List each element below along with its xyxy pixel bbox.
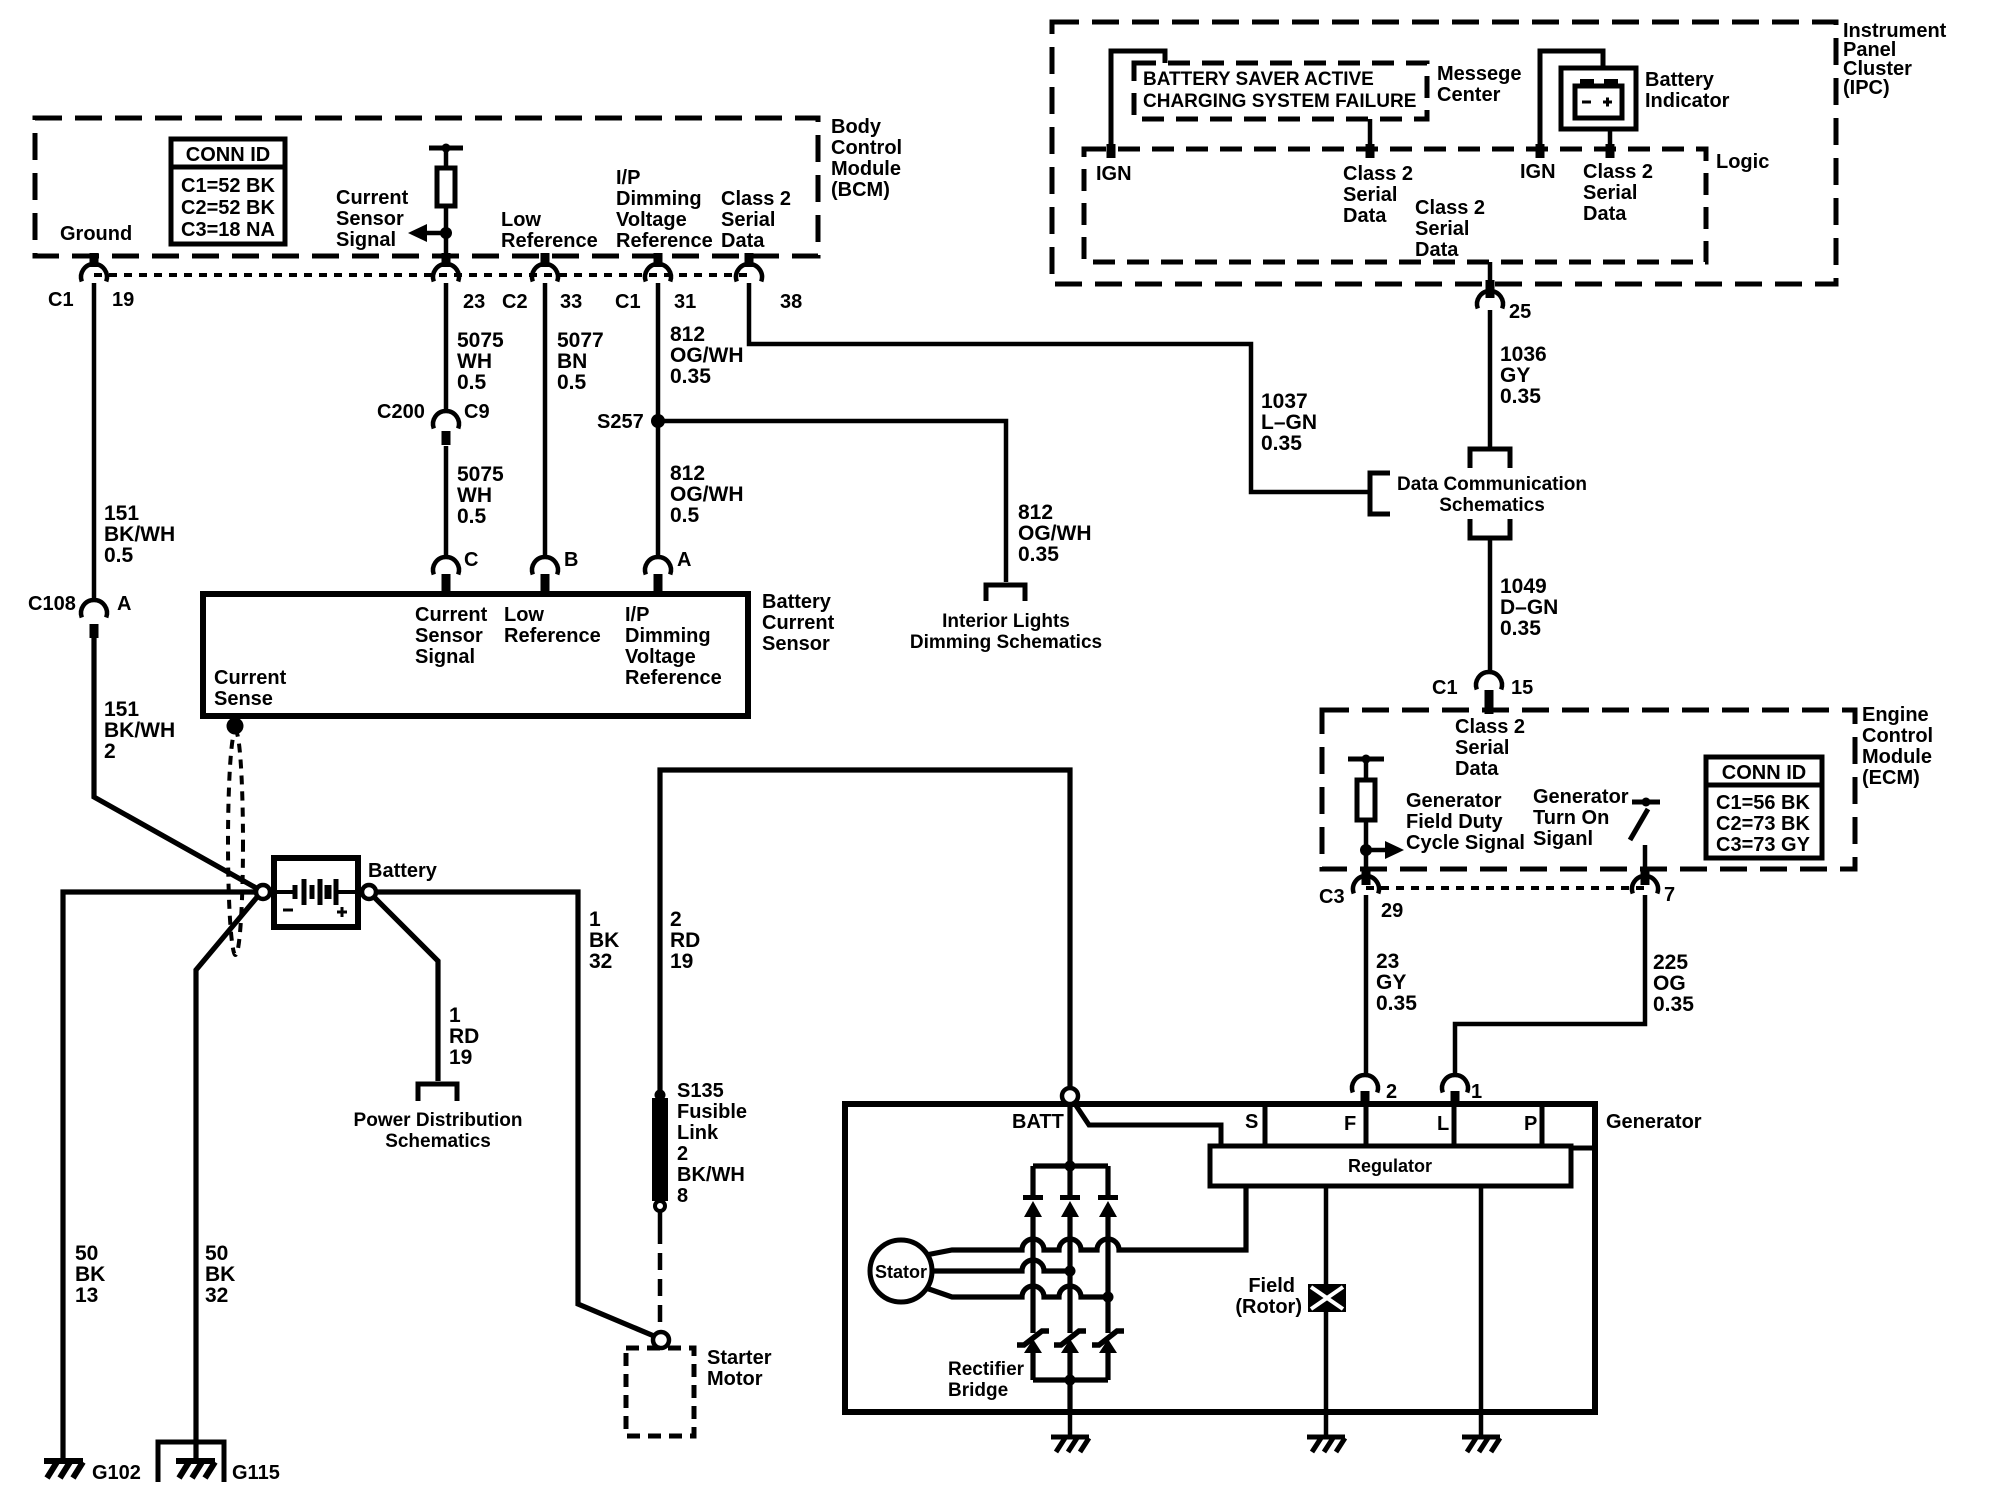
svg-text:Current: Current bbox=[415, 604, 488, 626]
svg-text:225: 225 bbox=[1653, 951, 1688, 974]
svg-text:19: 19 bbox=[112, 289, 134, 311]
BATT terminal circle bbox=[1062, 1088, 1078, 1104]
stator phase 3 (to right leg) bbox=[926, 1286, 1108, 1297]
ground (rectifier) bbox=[1051, 1437, 1089, 1452]
svg-text:1: 1 bbox=[589, 908, 601, 931]
svg-text:33: 33 bbox=[560, 291, 582, 313]
Generator Field Duty Cycle Signal label bbox=[1406, 790, 1525, 854]
svg-text:Dimming Schematics: Dimming Schematics bbox=[910, 632, 1102, 653]
svg-text:38: 38 bbox=[780, 291, 802, 313]
Class 2 Serial Data label (message center) bbox=[1343, 163, 1413, 227]
svg-text:Schematics: Schematics bbox=[1439, 495, 1545, 516]
svg-text:C: C bbox=[464, 549, 478, 571]
battery negative terminal bbox=[256, 885, 270, 899]
terminal divider P end bbox=[1540, 1104, 1545, 1148]
svg-text:Rectifier: Rectifier bbox=[948, 1359, 1025, 1380]
svg-text:1: 1 bbox=[449, 1004, 461, 1027]
svg-text:Sensor: Sensor bbox=[415, 625, 483, 647]
stator circle bbox=[870, 1240, 932, 1302]
svg-text:151: 151 bbox=[104, 502, 139, 525]
svg-text:0.5: 0.5 bbox=[557, 371, 587, 394]
svg-text:IGN: IGN bbox=[1096, 163, 1132, 185]
battery minus sign bbox=[283, 909, 293, 912]
sensor connector B bbox=[532, 557, 558, 574]
svg-text:BK: BK bbox=[589, 929, 619, 952]
svg-text:2: 2 bbox=[677, 1143, 688, 1165]
svg-text:C3=73 GY: C3=73 GY bbox=[1716, 834, 1811, 856]
svg-text:Signal: Signal bbox=[336, 229, 396, 251]
rectifier left leg bbox=[1030, 1166, 1035, 1196]
svg-text:0.5: 0.5 bbox=[670, 504, 700, 527]
svg-text:Cycle Signal: Cycle Signal bbox=[1406, 832, 1525, 854]
svg-text:8: 8 bbox=[677, 1185, 688, 1207]
arrow Current Sensor Signal bbox=[408, 224, 446, 242]
terminal divider F|L bbox=[1364, 1104, 1369, 1146]
svg-text:7: 7 bbox=[1664, 884, 1675, 906]
svg-text:BK/WH: BK/WH bbox=[677, 1164, 745, 1186]
svg-text:Turn On: Turn On bbox=[1533, 807, 1609, 829]
svg-text:Fusible: Fusible bbox=[677, 1101, 747, 1123]
svg-text:IGN: IGN bbox=[1520, 161, 1556, 183]
class 2 serial data stub from battery indicator bbox=[1608, 129, 1613, 145]
svg-text:Logic: Logic bbox=[1716, 151, 1769, 173]
svg-text:BATTERY SAVER ACTIVE: BATTERY SAVER ACTIVE bbox=[1143, 69, 1374, 90]
battery cell plates bbox=[277, 879, 355, 905]
ECM CONN ID table bbox=[1706, 757, 1822, 858]
Low Reference label (BCM) bbox=[501, 209, 598, 252]
ECM module label bbox=[1862, 704, 1933, 789]
svg-text:812: 812 bbox=[1018, 501, 1053, 524]
svg-text:S257: S257 bbox=[597, 411, 644, 433]
svg-text:0.35: 0.35 bbox=[670, 365, 711, 388]
svg-text:Body: Body bbox=[831, 116, 882, 138]
svg-text:G115: G115 bbox=[232, 1462, 280, 1484]
svg-text:Data: Data bbox=[1583, 203, 1627, 225]
wire 5075 WH 0.5 (C200 to sensor C) bbox=[444, 446, 449, 555]
Battery Indicator label bbox=[1645, 69, 1730, 112]
svg-text:C1=52 BK: C1=52 BK bbox=[181, 175, 275, 197]
connector C2 pin 33 bbox=[532, 264, 558, 281]
svg-text:S135: S135 bbox=[677, 1080, 724, 1102]
svg-text:2: 2 bbox=[670, 908, 682, 931]
svg-text:Signal: Signal bbox=[415, 646, 475, 668]
wire 812 OG/WH 0.35 (S257 to interior lights) bbox=[658, 421, 1006, 582]
current sense dashed loop bbox=[228, 731, 243, 955]
svg-text:Sense: Sense bbox=[214, 688, 273, 710]
generator ground stub (regulator) bbox=[1479, 1412, 1484, 1436]
svg-text:GY: GY bbox=[1500, 364, 1530, 387]
svg-text:Siganl: Siganl bbox=[1533, 828, 1593, 850]
regulator ground wire bbox=[1479, 1186, 1484, 1412]
svg-text:GY: GY bbox=[1376, 971, 1406, 994]
svg-text:Field: Field bbox=[1248, 1275, 1295, 1297]
wire 5075 WH 0.5 (pin 23 down) bbox=[444, 283, 449, 409]
wire 50 BK 32 (negative to G115) bbox=[196, 896, 258, 1458]
svg-text:Messege: Messege bbox=[1437, 63, 1522, 85]
terminal divider S|F bbox=[1263, 1104, 1268, 1146]
svg-text:Class 2: Class 2 bbox=[1455, 716, 1525, 738]
svg-text:Class 2: Class 2 bbox=[1343, 163, 1413, 185]
pin 25 wire from logic box bbox=[1488, 262, 1493, 282]
connector C1 pin 15 bbox=[1476, 672, 1502, 689]
svg-text:Serial: Serial bbox=[1455, 737, 1509, 759]
svg-text:23: 23 bbox=[1376, 950, 1399, 973]
svg-text:32: 32 bbox=[205, 1284, 228, 1307]
svg-text:Module: Module bbox=[831, 158, 901, 180]
svg-text:Center: Center bbox=[1437, 84, 1501, 106]
svg-text:0.35: 0.35 bbox=[1376, 992, 1417, 1015]
svg-text:Reference: Reference bbox=[625, 667, 722, 689]
svg-text:0.35: 0.35 bbox=[1500, 617, 1541, 640]
Class 2 Serial Data label (battery indicator) bbox=[1583, 161, 1653, 225]
svg-text:WH: WH bbox=[457, 484, 492, 507]
svg-text:0.35: 0.35 bbox=[1653, 993, 1694, 1016]
svg-text:1049: 1049 bbox=[1500, 575, 1547, 598]
rectifier right leg bbox=[1105, 1166, 1110, 1196]
svg-text:C108: C108 bbox=[28, 593, 76, 615]
svg-text:C200: C200 bbox=[377, 401, 425, 423]
wire 1037 L-GN 0.35 (pin 38 to data communication) bbox=[749, 283, 1369, 492]
Current Sensor Signal label (sensor) bbox=[415, 604, 488, 668]
wire 5077 BN 0.5 (pin 33 to sensor B) bbox=[543, 283, 548, 555]
wire 151 BK/WH 2 (C108 to battery negative) bbox=[94, 638, 258, 889]
svg-text:Dimming: Dimming bbox=[625, 625, 711, 647]
svg-text:5077: 5077 bbox=[557, 329, 604, 352]
svg-text:0.5: 0.5 bbox=[457, 371, 487, 394]
connector C200 / C9 bbox=[433, 411, 459, 428]
field wire (regulator to rotor) bbox=[1324, 1186, 1329, 1284]
Message Center dashed box bbox=[1134, 63, 1427, 119]
IPC module dashed box bbox=[1052, 22, 1836, 284]
class 2 serial data stub from message center bbox=[1368, 119, 1373, 145]
Battery Indicator icon bbox=[1561, 68, 1636, 129]
off-page brackets Data Communication Schematics bbox=[1470, 449, 1510, 468]
ground G102 bbox=[44, 1461, 83, 1478]
diode (left upper) bbox=[1023, 1195, 1043, 1217]
wire 2 RD 19 (generator BATT to S135) bbox=[660, 770, 1070, 1092]
wire 1 BK 32 (positive to starter motor) bbox=[376, 892, 654, 1336]
stator phase 1 (to regulator) bbox=[926, 1186, 1246, 1255]
Messege Center label bbox=[1437, 63, 1522, 106]
svg-text:25: 25 bbox=[1509, 301, 1531, 323]
svg-text:Low: Low bbox=[504, 604, 544, 626]
ECM module dashed box bbox=[1322, 710, 1855, 869]
svg-text:1037: 1037 bbox=[1261, 390, 1308, 413]
wire BATT tap to regulator bbox=[1073, 1101, 1221, 1146]
svg-text:C1: C1 bbox=[1432, 677, 1458, 699]
svg-text:15: 15 bbox=[1511, 677, 1533, 699]
svg-text:Sensor: Sensor bbox=[762, 633, 830, 655]
connector pin 25 bbox=[1477, 291, 1503, 308]
svg-text:OG/WH: OG/WH bbox=[670, 483, 744, 506]
svg-text:(BCM): (BCM) bbox=[831, 179, 890, 201]
BCM connector dotted line bbox=[94, 273, 749, 277]
svg-text:Bridge: Bridge bbox=[948, 1380, 1008, 1401]
svg-text:CONN ID: CONN ID bbox=[1722, 762, 1806, 784]
svg-text:13: 13 bbox=[75, 1284, 98, 1307]
svg-text:Indicator: Indicator bbox=[1645, 90, 1730, 112]
BCM module dashed box bbox=[35, 118, 818, 256]
svg-text:Data: Data bbox=[1455, 758, 1499, 780]
Rectifier Bridge label bbox=[948, 1359, 1025, 1401]
IGN wire to message center bbox=[1111, 51, 1165, 149]
svg-text:Module: Module bbox=[1862, 746, 1932, 768]
svg-text:I/P: I/P bbox=[625, 604, 649, 626]
wire 1 RD 19 (positive to power distribution) bbox=[374, 897, 438, 1081]
svg-text:0.35: 0.35 bbox=[1018, 543, 1059, 566]
svg-text:Dimming: Dimming bbox=[616, 188, 702, 210]
svg-text:Class 2: Class 2 bbox=[721, 188, 791, 210]
svg-text:Battery: Battery bbox=[762, 591, 832, 613]
resistor (field duty) in ECM bbox=[1348, 755, 1384, 870]
svg-text:Sensor: Sensor bbox=[336, 208, 404, 230]
svg-text:Data: Data bbox=[1415, 239, 1459, 261]
svg-text:Power Distribution: Power Distribution bbox=[354, 1110, 523, 1131]
svg-text:50: 50 bbox=[75, 1242, 98, 1265]
Class 2 Serial Data label (pin 25) bbox=[1415, 197, 1485, 261]
diode (right upper) bbox=[1098, 1195, 1118, 1217]
svg-text:BK: BK bbox=[75, 1263, 105, 1286]
svg-text:32: 32 bbox=[589, 950, 612, 973]
wire 1036 GY 0.35 (pin 25 to data communication) bbox=[1488, 310, 1493, 447]
svg-text:2: 2 bbox=[104, 740, 116, 763]
junction on current sensor signal line bbox=[440, 227, 452, 239]
svg-text:0.5: 0.5 bbox=[104, 544, 134, 567]
fusible link S135 bbox=[652, 1098, 668, 1201]
svg-text:C1: C1 bbox=[48, 289, 74, 311]
svg-text:Starter: Starter bbox=[707, 1347, 772, 1369]
svg-text:C1=56 BK: C1=56 BK bbox=[1716, 792, 1810, 814]
svg-text:BK/WH: BK/WH bbox=[104, 523, 175, 546]
svg-text:OG: OG bbox=[1653, 972, 1686, 995]
svg-text:Reference: Reference bbox=[616, 230, 713, 252]
svg-text:50: 50 bbox=[205, 1242, 228, 1265]
svg-text:G102: G102 bbox=[92, 1462, 141, 1484]
svg-text:(ECM): (ECM) bbox=[1862, 767, 1920, 789]
svg-text:S: S bbox=[1245, 1111, 1258, 1133]
svg-text:0.35: 0.35 bbox=[1500, 385, 1541, 408]
ground (regulator) bbox=[1462, 1437, 1500, 1452]
svg-text:Current: Current bbox=[762, 612, 835, 634]
IPC module label bbox=[1843, 20, 1947, 99]
Current Sense label bbox=[214, 667, 287, 710]
svg-text:Generator: Generator bbox=[1533, 786, 1629, 808]
svg-text:Serial: Serial bbox=[721, 209, 775, 231]
dashed wire fusible link to starter bbox=[658, 1211, 663, 1227]
svg-text:RD: RD bbox=[449, 1025, 479, 1048]
svg-text:Voltage: Voltage bbox=[616, 209, 687, 231]
starter motor dashed box bbox=[626, 1348, 694, 1436]
connector C1 pin 19 bbox=[81, 264, 107, 281]
svg-text:Control: Control bbox=[831, 137, 902, 159]
resistor (current sensor pull-up) in BCM bbox=[429, 144, 463, 257]
BCM module label bbox=[831, 116, 902, 201]
svg-text:L: L bbox=[1437, 1113, 1449, 1135]
svg-text:A: A bbox=[677, 549, 691, 571]
connector C1 pin 31 bbox=[645, 264, 671, 281]
svg-text:Stator: Stator bbox=[875, 1262, 927, 1282]
svg-text:19: 19 bbox=[449, 1046, 472, 1069]
svg-text:23: 23 bbox=[463, 291, 485, 313]
svg-text:1036: 1036 bbox=[1500, 343, 1547, 366]
svg-text:Current: Current bbox=[336, 187, 409, 209]
svg-text:L–GN: L–GN bbox=[1261, 411, 1317, 434]
Field (Rotor) label bbox=[1235, 1275, 1302, 1318]
svg-text:Data Communication: Data Communication bbox=[1397, 474, 1587, 495]
battery box bbox=[274, 858, 358, 927]
svg-text:0.35: 0.35 bbox=[1261, 432, 1302, 455]
current sense node dot bbox=[227, 718, 244, 735]
wire 225 OG 0.35 (pin 7 to generator L) bbox=[1455, 895, 1645, 1073]
svg-text:BK/WH: BK/WH bbox=[104, 719, 175, 742]
wire 23 GY 0.35 (C3 29 to generator F) bbox=[1364, 895, 1369, 1073]
Generator Turn On Siganl label bbox=[1533, 786, 1629, 850]
svg-text:CONN ID: CONN ID bbox=[186, 144, 270, 166]
svg-text:Serial: Serial bbox=[1583, 182, 1637, 204]
svg-text:(Rotor): (Rotor) bbox=[1235, 1296, 1302, 1318]
svg-text:Data: Data bbox=[1343, 205, 1387, 227]
Battery Current Sensor label bbox=[762, 591, 835, 655]
wire 812 OG/WH 0.5 (S257 to sensor A) bbox=[656, 421, 661, 555]
field ground wire bbox=[1324, 1312, 1329, 1412]
off-page bracket Interior Lights Dimming bbox=[986, 585, 1025, 601]
svg-text:0.5: 0.5 bbox=[457, 505, 487, 528]
connector pin 2 (generator F) bbox=[1352, 1075, 1378, 1092]
svg-text:812: 812 bbox=[670, 462, 705, 485]
junction on field duty line bbox=[1360, 844, 1372, 856]
svg-text:Engine: Engine bbox=[1862, 704, 1929, 726]
IGN wire to battery indicator bbox=[1540, 51, 1603, 149]
svg-text:Low: Low bbox=[501, 209, 541, 231]
svg-text:Reference: Reference bbox=[504, 625, 601, 647]
svg-text:Serial: Serial bbox=[1415, 218, 1469, 240]
connector pin 38 bbox=[736, 264, 762, 281]
turn-on switch symbol bbox=[1630, 798, 1660, 870]
svg-text:Field Duty: Field Duty bbox=[1406, 811, 1504, 833]
Low Reference label (sensor) bbox=[504, 604, 601, 647]
svg-text:BATT: BATT bbox=[1012, 1111, 1064, 1133]
stator phase 2 (to center leg) bbox=[932, 1260, 1070, 1271]
svg-text:Current: Current bbox=[214, 667, 287, 689]
svg-text:1: 1 bbox=[1471, 1081, 1482, 1103]
terminal divider L|P bbox=[1452, 1104, 1457, 1146]
svg-text:29: 29 bbox=[1381, 900, 1403, 922]
starter motor terminal circle bbox=[653, 1332, 669, 1348]
svg-text:812: 812 bbox=[670, 323, 705, 346]
connector pin 1 (generator L) bbox=[1442, 1075, 1468, 1092]
svg-text:Generator: Generator bbox=[1406, 790, 1502, 812]
svg-text:2: 2 bbox=[1386, 1081, 1397, 1103]
svg-text:C3: C3 bbox=[1319, 886, 1345, 908]
svg-text:B: B bbox=[564, 549, 578, 571]
svg-text:P: P bbox=[1524, 1113, 1537, 1135]
svg-text:Schematics: Schematics bbox=[385, 1131, 491, 1152]
field rotor symbol bbox=[1308, 1284, 1346, 1312]
svg-text:Regulator: Regulator bbox=[1348, 1156, 1432, 1176]
arrow Generator Field Duty bbox=[1366, 841, 1404, 859]
diode (center upper) bbox=[1060, 1195, 1080, 1217]
terminal row bottom segment right of regulator bbox=[1571, 1146, 1595, 1151]
BCM pin stubs bbox=[90, 253, 99, 267]
ground G115 bbox=[176, 1461, 215, 1478]
sensor connector A bbox=[645, 557, 671, 574]
svg-text:Ground: Ground bbox=[60, 223, 132, 245]
BCM CONN ID table bbox=[171, 139, 285, 244]
Regulator box bbox=[1210, 1146, 1571, 1186]
splice S257 bbox=[651, 414, 665, 428]
sensor connector C bbox=[433, 557, 459, 574]
svg-text:(IPC): (IPC) bbox=[1843, 77, 1890, 99]
off-page bracket Power Distribution bbox=[418, 1084, 457, 1101]
splice S135 junction bbox=[655, 1090, 666, 1101]
connector C108 pin A bbox=[81, 600, 107, 617]
svg-text:31: 31 bbox=[674, 291, 696, 313]
Class 2 Serial Data label (ECM) bbox=[1455, 716, 1525, 780]
svg-text:Battery: Battery bbox=[368, 860, 438, 882]
svg-text:Interior Lights: Interior Lights bbox=[942, 611, 1070, 632]
generator box bbox=[845, 1104, 1595, 1412]
svg-text:Class 2: Class 2 bbox=[1583, 161, 1653, 183]
wire 812 OG/WH 0.35 (pin 31 to S257) bbox=[656, 283, 661, 421]
I/P Dimming Voltage Reference label (sensor) bbox=[625, 604, 722, 689]
connector pin 7 bbox=[1641, 871, 1650, 885]
svg-text:OG/WH: OG/WH bbox=[1018, 522, 1092, 545]
svg-text:151: 151 bbox=[104, 698, 139, 721]
svg-text:Control: Control bbox=[1862, 725, 1933, 747]
svg-text:C2=52 BK: C2=52 BK bbox=[181, 197, 275, 219]
generator ground stub (field) bbox=[1324, 1412, 1329, 1436]
ECM connector dotted line bbox=[1366, 886, 1645, 890]
svg-text:CHARGING SYSTEM FAILURE: CHARGING SYSTEM FAILURE bbox=[1143, 91, 1416, 112]
rectifier top bar bbox=[1033, 1163, 1108, 1168]
svg-text:C3=18 NA: C3=18 NA bbox=[181, 219, 275, 241]
battery plus sign bbox=[337, 907, 347, 917]
battery positive terminal bbox=[362, 885, 376, 899]
svg-text:19: 19 bbox=[670, 950, 693, 973]
svg-text:Generator: Generator bbox=[1606, 1111, 1702, 1133]
rectifier main vertical (BATT to ground) bbox=[1067, 1104, 1072, 1166]
svg-text:Link: Link bbox=[677, 1122, 719, 1144]
svg-text:Reference: Reference bbox=[501, 230, 598, 252]
svg-text:5075: 5075 bbox=[457, 463, 504, 486]
Starter Motor label bbox=[707, 1347, 772, 1390]
Logic dashed box bbox=[1084, 149, 1706, 262]
Battery Current Sensor box bbox=[203, 594, 748, 716]
G115 staple bracket bbox=[158, 1442, 224, 1482]
svg-text:I/P: I/P bbox=[616, 167, 640, 189]
svg-text:Data: Data bbox=[721, 230, 765, 252]
zener diode (center lower) bbox=[1054, 1331, 1086, 1353]
svg-text:Voltage: Voltage bbox=[625, 646, 696, 668]
svg-text:BN: BN bbox=[557, 350, 587, 373]
svg-text:D–GN: D–GN bbox=[1500, 596, 1558, 619]
wire 50 BK 13 (negative to G102) bbox=[63, 892, 256, 1458]
I/P Dimming Voltage Reference label (BCM) bbox=[616, 167, 713, 252]
svg-text:5075: 5075 bbox=[457, 329, 504, 352]
zener diode (right lower) bbox=[1092, 1331, 1124, 1353]
Class 2 Serial Data label (BCM) bbox=[721, 188, 791, 252]
svg-text:OG/WH: OG/WH bbox=[670, 344, 744, 367]
svg-text:Class 2: Class 2 bbox=[1415, 197, 1485, 219]
svg-text:C2: C2 bbox=[502, 291, 528, 313]
svg-text:C2=73 BK: C2=73 BK bbox=[1716, 813, 1810, 835]
generator ground stub (rectifier) bbox=[1068, 1412, 1073, 1436]
svg-text:Motor: Motor bbox=[707, 1368, 763, 1390]
svg-text:RD: RD bbox=[670, 929, 700, 952]
rectifier bottom bar bbox=[1033, 1377, 1108, 1382]
svg-text:Battery: Battery bbox=[1645, 69, 1715, 91]
svg-text:WH: WH bbox=[457, 350, 492, 373]
